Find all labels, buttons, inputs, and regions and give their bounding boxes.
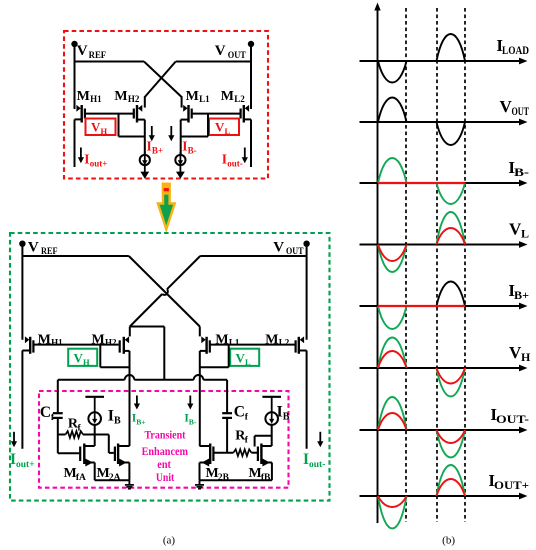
svg-text:L2: L2 (234, 94, 245, 104)
svg-text:V: V (77, 43, 88, 59)
svg-text:B: B (114, 416, 121, 427)
svg-text:B-: B- (514, 165, 529, 179)
svg-text:H: H (521, 350, 531, 364)
svg-text:L: L (521, 227, 529, 241)
svg-text:V: V (91, 120, 101, 135)
svg-text:LOAD: LOAD (502, 43, 529, 57)
svg-text:M: M (97, 466, 110, 481)
svg-text:M: M (114, 89, 127, 104)
svg-text:B-: B- (189, 418, 197, 427)
svg-text:H: H (101, 126, 108, 136)
svg-text:M: M (64, 466, 77, 481)
svg-text:L: L (245, 357, 251, 367)
svg-text:out-: out- (227, 159, 243, 169)
svg-text:H1: H1 (90, 94, 102, 104)
svg-text:L2: L2 (279, 337, 290, 347)
svg-text:out-: out- (309, 460, 325, 470)
svg-text:ent: ent (157, 457, 171, 471)
svg-text:B+: B+ (136, 418, 145, 427)
svg-text:out+: out+ (90, 159, 108, 169)
svg-text:V: V (74, 350, 84, 365)
svg-text:B: B (283, 412, 290, 423)
svg-text:OUT: OUT (512, 104, 530, 118)
svg-text:L: L (225, 126, 231, 136)
svg-text:2B: 2B (218, 473, 230, 483)
svg-text:REF: REF (89, 51, 107, 61)
svg-text:Enhancem: Enhancem (142, 444, 188, 458)
svg-text:H2: H2 (128, 94, 140, 104)
svg-text:M: M (249, 466, 262, 481)
svg-text:Transient: Transient (145, 428, 186, 442)
svg-text:L1: L1 (199, 94, 210, 104)
svg-text:M: M (92, 332, 105, 347)
svg-text:B+: B+ (152, 146, 163, 156)
svg-text:C: C (234, 404, 245, 421)
svg-text:2A: 2A (109, 473, 121, 483)
svg-text:V: V (215, 120, 225, 135)
svg-text:V: V (273, 240, 284, 256)
svg-text:out+: out+ (16, 460, 35, 470)
svg-text:M: M (206, 466, 219, 481)
svg-text:fA: fA (76, 473, 86, 483)
svg-text:V: V (215, 43, 226, 59)
svg-text:M: M (221, 89, 234, 104)
svg-text:M: M (215, 332, 228, 347)
svg-text:OUT+: OUT+ (494, 478, 529, 492)
svg-text:V: V (236, 350, 246, 365)
svg-text:M: M (38, 332, 51, 347)
svg-text:H: H (83, 357, 90, 367)
svg-text:C: C (40, 404, 51, 421)
svg-text:OUT: OUT (228, 51, 247, 61)
svg-text:fB: fB (261, 473, 271, 483)
svg-text:H1: H1 (51, 337, 63, 347)
svg-text:L1: L1 (229, 337, 240, 347)
svg-text:(b): (b) (442, 535, 455, 547)
svg-text:M: M (77, 89, 90, 104)
svg-text:H2: H2 (105, 337, 117, 347)
svg-text:M: M (265, 332, 278, 347)
svg-text:B+: B+ (514, 288, 529, 302)
svg-text:(a): (a) (163, 535, 176, 547)
svg-text:V: V (28, 240, 39, 256)
svg-text:B-: B- (188, 146, 197, 156)
svg-text:M: M (186, 89, 199, 104)
svg-text:Unit: Unit (156, 470, 174, 484)
svg-text:OUT-: OUT- (496, 412, 529, 426)
